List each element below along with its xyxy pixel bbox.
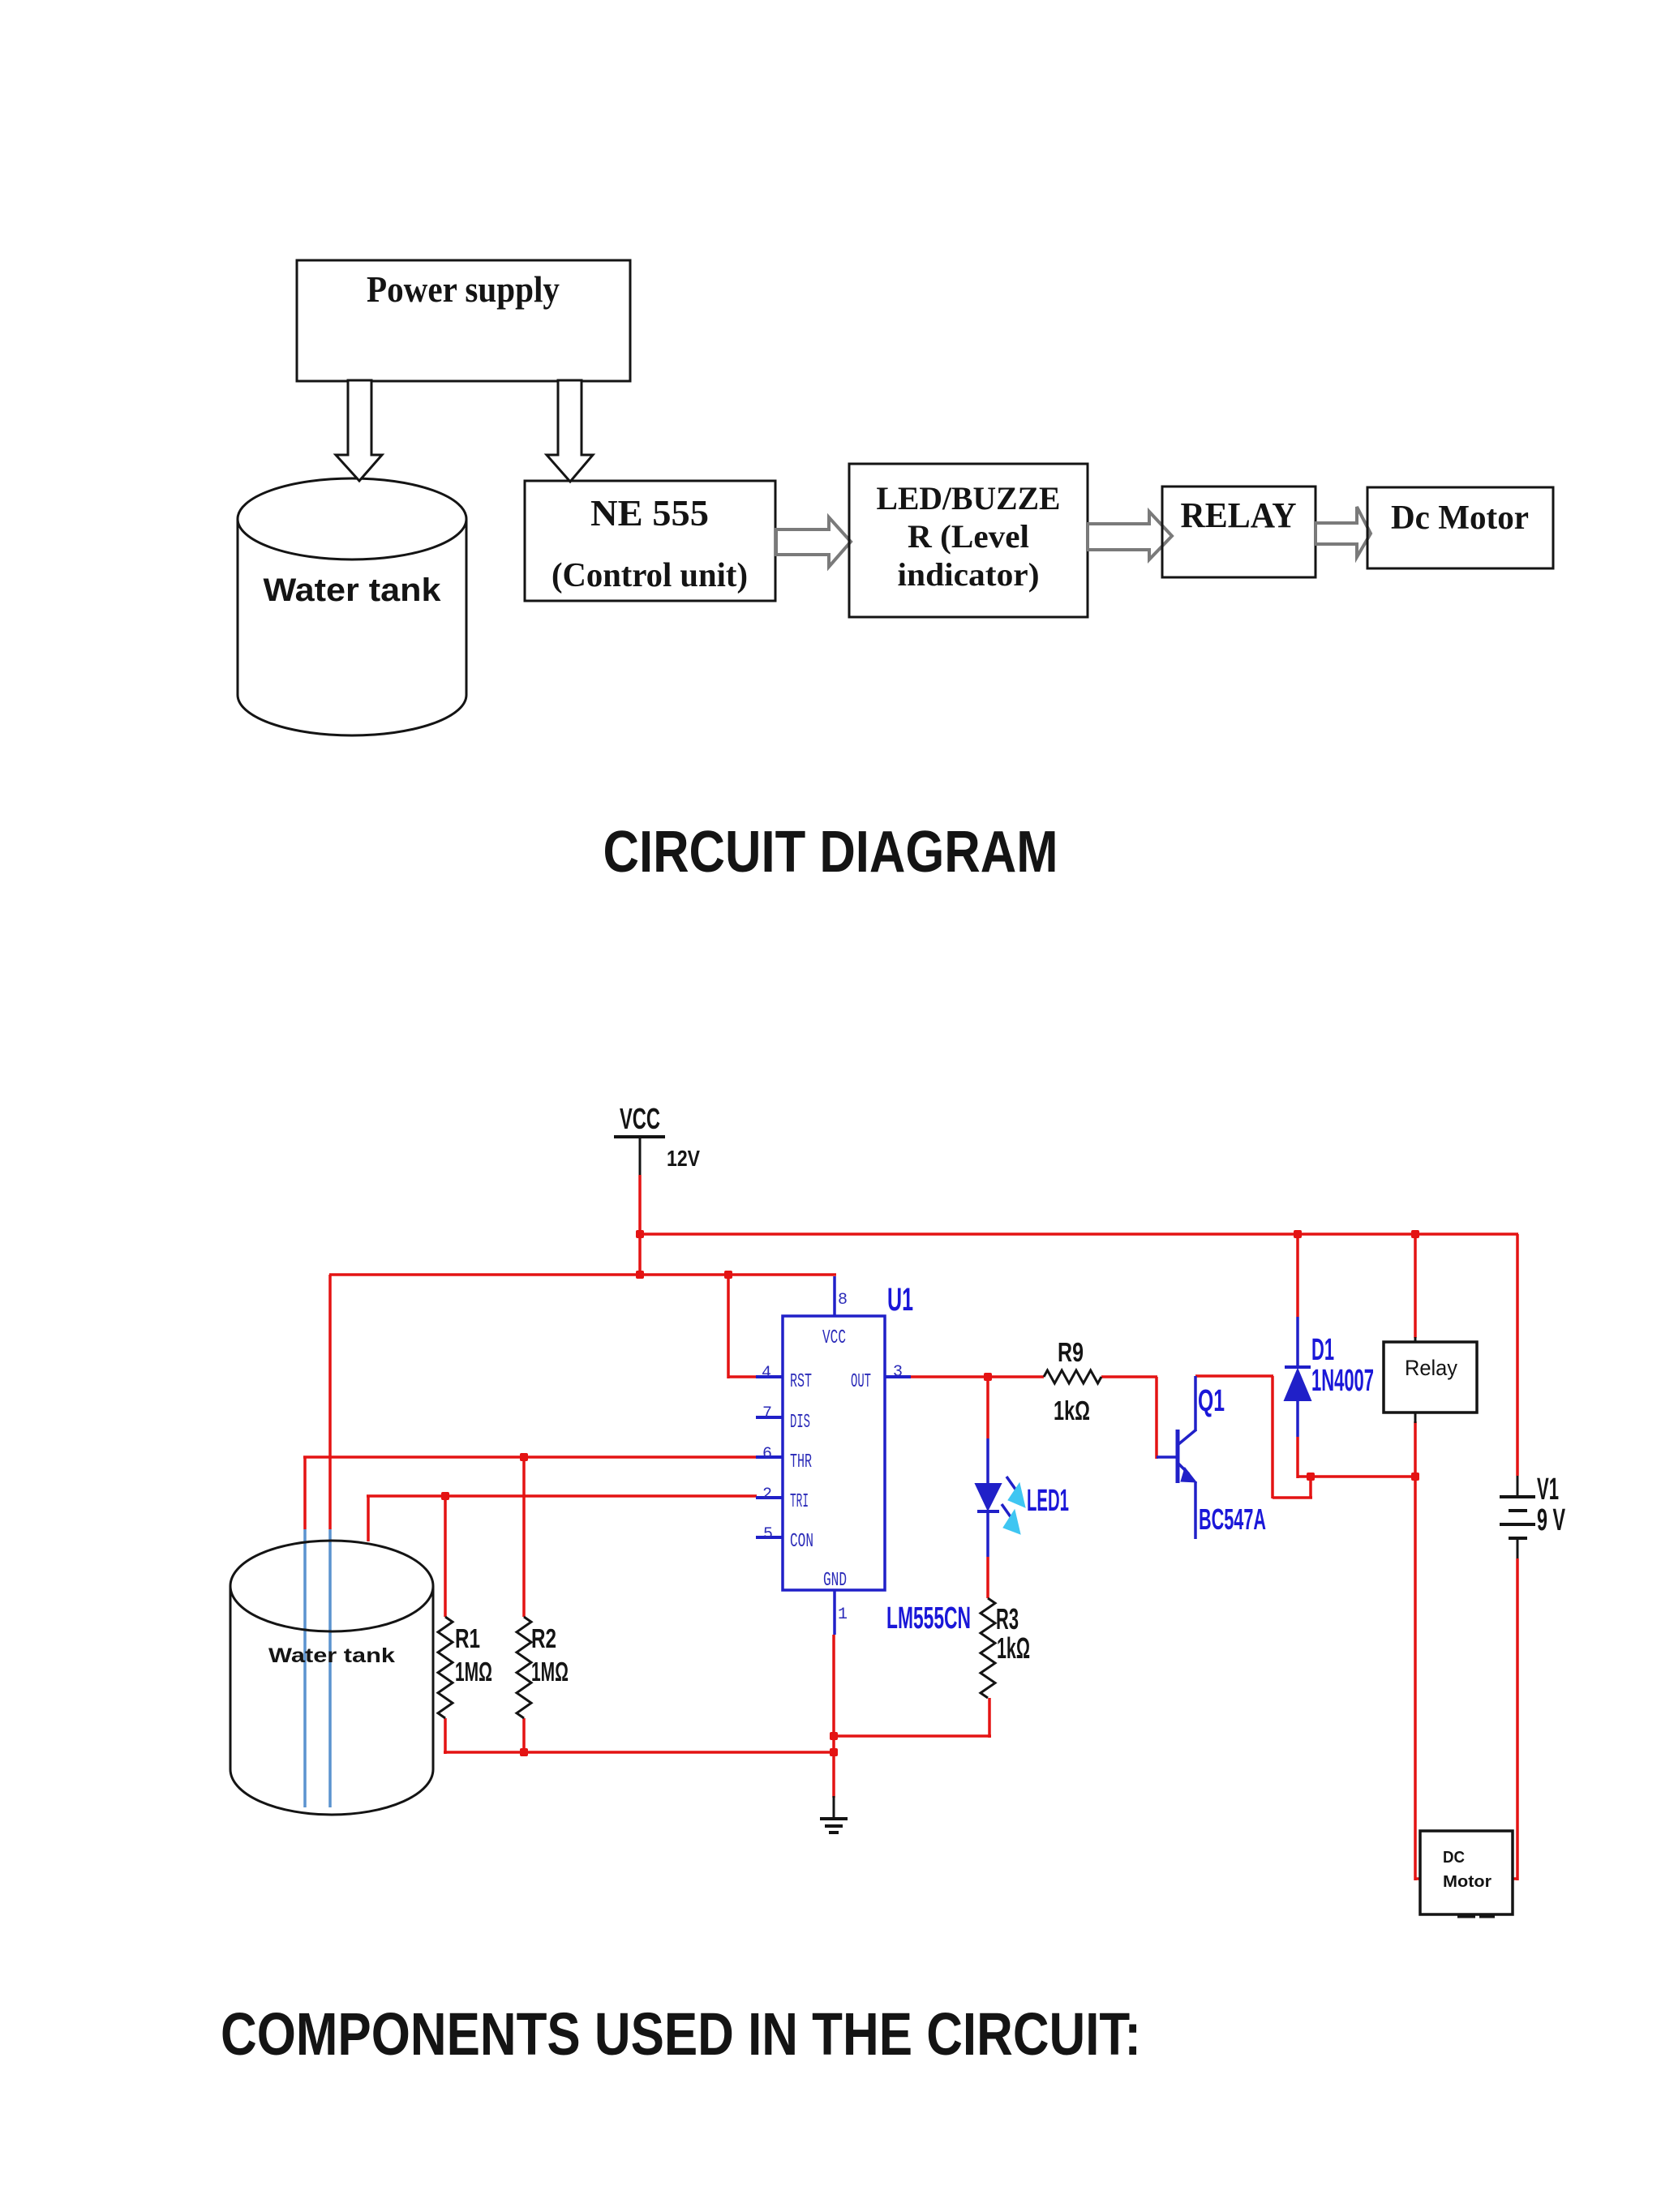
svg-text:1kΩ: 1kΩ xyxy=(997,1631,1030,1665)
svg-text:Relay: Relay xyxy=(1405,1356,1457,1380)
svg-text:1N4007: 1N4007 xyxy=(1311,1364,1374,1398)
svg-text:12V: 12V xyxy=(667,1146,700,1171)
svg-text:VCC: VCC xyxy=(822,1327,846,1349)
svg-text:8: 8 xyxy=(838,1291,848,1310)
svg-text:LM555CN: LM555CN xyxy=(886,1601,971,1635)
svg-text:R (Level: R (Level xyxy=(908,518,1029,555)
svg-text:9 V: 9 V xyxy=(1537,1503,1565,1537)
svg-text:1MΩ: 1MΩ xyxy=(531,1657,569,1687)
svg-text:Water tank: Water tank xyxy=(268,1644,395,1667)
svg-text:1MΩ: 1MΩ xyxy=(455,1657,492,1687)
svg-text:DC: DC xyxy=(1443,1849,1465,1867)
svg-text:LED/BUZZE: LED/BUZZE xyxy=(877,480,1061,517)
svg-text:RELAY: RELAY xyxy=(1181,495,1297,535)
svg-text:1kΩ: 1kΩ xyxy=(1054,1395,1090,1425)
svg-text:OUT: OUT xyxy=(851,1371,871,1393)
svg-text:5: 5 xyxy=(763,1525,773,1544)
svg-text:COMPONENTS USED IN THE CIRCUI: COMPONENTS USED IN THE CIRCUIT: xyxy=(221,2000,1141,2068)
svg-text:RST: RST xyxy=(790,1371,812,1393)
svg-text:R1: R1 xyxy=(455,1623,480,1653)
svg-text:TRI: TRI xyxy=(790,1491,809,1513)
svg-text:D1: D1 xyxy=(1311,1333,1334,1367)
svg-text:1: 1 xyxy=(838,1605,848,1624)
svg-text:Q1: Q1 xyxy=(1198,1384,1225,1418)
svg-text:CON: CON xyxy=(790,1531,813,1553)
svg-text:DIS: DIS xyxy=(790,1412,810,1434)
svg-text:Power supply: Power supply xyxy=(367,268,560,310)
svg-text:Water tank: Water tank xyxy=(264,572,442,608)
svg-text:4: 4 xyxy=(762,1364,771,1382)
svg-text:Dc Motor: Dc Motor xyxy=(1391,499,1529,537)
svg-text:7: 7 xyxy=(762,1404,772,1423)
svg-text:GND: GND xyxy=(823,1570,847,1592)
svg-text:BC547A: BC547A xyxy=(1199,1503,1266,1536)
svg-text:indicator): indicator) xyxy=(898,556,1040,593)
svg-text:R2: R2 xyxy=(531,1623,556,1653)
svg-text:R9: R9 xyxy=(1058,1337,1084,1367)
svg-text:V1: V1 xyxy=(1537,1473,1559,1507)
svg-text:THR: THR xyxy=(790,1451,812,1473)
svg-text:LED1: LED1 xyxy=(1027,1484,1069,1518)
svg-text:3: 3 xyxy=(893,1363,903,1382)
svg-text:2: 2 xyxy=(762,1485,772,1504)
svg-text:(Control unit): (Control unit) xyxy=(552,557,748,594)
svg-text:VCC: VCC xyxy=(620,1102,660,1135)
svg-text:CIRCUIT DIAGRAM: CIRCUIT DIAGRAM xyxy=(603,820,1058,885)
svg-text:Motor: Motor xyxy=(1443,1873,1491,1891)
svg-text:R3: R3 xyxy=(996,1602,1019,1635)
svg-text:6: 6 xyxy=(762,1445,772,1464)
svg-text:NE 555: NE 555 xyxy=(590,492,709,534)
svg-text:U1: U1 xyxy=(887,1282,913,1318)
